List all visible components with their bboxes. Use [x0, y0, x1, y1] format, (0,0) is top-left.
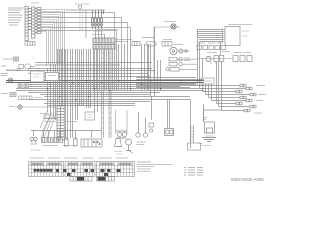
left lamp label — [9, 106, 14, 108]
meter terminal ticks — [223, 29, 226, 43]
relay box pictorial — [81, 139, 102, 147]
key switch dashed line — [6, 69, 17, 71]
position lamp wire — [15, 106, 57, 108]
left label row 2 — [1, 66, 8, 76]
main horizontal bus band — [6, 63, 204, 119]
regulator cluster labels — [163, 40, 183, 45]
horn circle — [171, 24, 176, 29]
right parts list — [184, 168, 203, 176]
small text top of bottom-left — [30, 149, 40, 151]
note text block top-left — [8, 8, 24, 25]
dashed sensor line with top box — [79, 6, 83, 31]
clutch diode pictorial — [126, 139, 133, 153]
brake switch component — [149, 123, 154, 132]
regulator boxes — [166, 58, 182, 72]
table lower extension left — [70, 177, 92, 182]
right-center verticals — [119, 27, 204, 148]
left label row 1 — [3, 58, 13, 60]
center vertical bundle B — [58, 49, 78, 138]
caption under small parts — [42, 145, 75, 147]
meter label — [228, 24, 252, 26]
meter feed bus — [197, 30, 223, 56]
table header text dashes — [32, 163, 131, 165]
table header fills — [30, 163, 132, 166]
right components labels — [207, 52, 251, 53]
coil cylinder pictorial 2 — [73, 138, 78, 147]
stand bracket pictorial — [115, 139, 123, 147]
mid connector box 2 — [146, 42, 156, 47]
mid connector box 1 — [132, 42, 140, 46]
meter box right stub — [242, 31, 250, 36]
position lamp circle — [18, 105, 22, 109]
pictorial feed rail — [31, 131, 102, 139]
extra center verticals — [80, 49, 84, 106]
left connector grid 1 — [14, 57, 19, 61]
table lower extension right — [97, 177, 115, 182]
horn stub right — [176, 26, 180, 28]
ground bar — [202, 138, 216, 142]
rear turn lamp circles — [136, 112, 148, 137]
small text above tables right — [114, 152, 122, 155]
bulb pair pictorial — [30, 137, 37, 144]
long fan-out wires to right verticals — [41, 13, 131, 45]
bottom-center small text block — [137, 142, 146, 145]
regulator link wires — [177, 51, 197, 69]
table gridlines — [29, 162, 135, 177]
right small boxes — [214, 56, 252, 62]
mid harness junction box — [85, 112, 95, 120]
extra cluster feed vertical — [148, 44, 150, 90]
svg-text:0002-MCB-A000: 0002-MCB-A000 — [231, 177, 264, 182]
harness label row — [44, 121, 77, 123]
junction dots — [47, 80, 181, 100]
fuse terminal boxes column — [28, 8, 41, 34]
bus into regulator area — [136, 78, 204, 88]
combination meter box — [225, 27, 240, 46]
bottom-left label — [40, 113, 49, 115]
headlight wires — [13, 81, 28, 83]
right vertical bus — [198, 30, 222, 122]
bottom-left small box — [44, 115, 50, 118]
T component label — [205, 135, 214, 137]
nested wire corner fan — [41, 10, 65, 67]
taillight housing box — [116, 110, 128, 134]
small connector right of bank — [115, 38, 154, 42]
wrapped bundle pair — [102, 49, 112, 138]
right terminal wires — [198, 84, 251, 111]
ignition switch row — [19, 64, 35, 69]
extension dark cells — [77, 177, 106, 181]
license lamp boxed circles — [165, 129, 174, 136]
right indicator circle — [206, 56, 211, 61]
battery label — [199, 143, 203, 145]
small parts pictorial boxes — [42, 138, 63, 143]
handlebar switch connectors — [18, 84, 28, 87]
connector table bank — [29, 162, 135, 177]
bottom-left diagonal wires — [40, 110, 56, 138]
right components link wire — [197, 59, 233, 65]
legend text lines — [137, 162, 172, 171]
main connector bank top-center — [93, 38, 115, 49]
top header wire — [66, 10, 105, 38]
left connector grid 2 — [10, 93, 16, 97]
switch block box right — [46, 73, 59, 81]
T component CDI — [188, 125, 201, 150]
label above coils — [75, 3, 89, 5]
left mid connector grid — [19, 96, 43, 100]
right fuse label box — [201, 78, 214, 84]
horn wire — [154, 27, 171, 80]
center vertical bundle C — [87, 31, 128, 112]
label row 2 — [92, 34, 104, 36]
headlight circle — [8, 78, 13, 83]
alternator circle — [170, 47, 187, 54]
horn label — [164, 21, 176, 23]
tail lamp circles — [116, 131, 127, 138]
battery top ticks — [203, 118, 207, 120]
fuse box ladder — [25, 7, 35, 41]
center vertical bundle A — [48, 64, 56, 120]
battery box — [205, 122, 215, 133]
caption row above table — [30, 157, 128, 159]
right terminal labels — [254, 86, 266, 114]
table dark cells — [33, 169, 120, 176]
ignition coil drops — [92, 10, 104, 29]
relay connector row — [197, 46, 226, 50]
coil cylinder pictorial 1 — [64, 138, 69, 147]
dark harness connector strip — [57, 106, 64, 140]
coil labels row — [93, 30, 119, 32]
connector box below fuse ladder — [25, 42, 35, 46]
fuse box label — [31, 2, 39, 4]
left label row 3 — [1, 93, 8, 95]
mid connector box 3 — [162, 42, 172, 47]
relay connector row labels — [197, 42, 223, 44]
right terminal boxes — [236, 84, 256, 112]
switch block box left — [31, 71, 45, 82]
